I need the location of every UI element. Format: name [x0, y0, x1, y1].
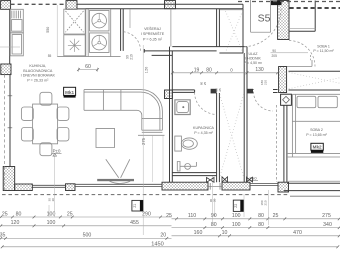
svg-text:80: 80: [211, 222, 217, 228]
svg-text:100: 100: [47, 211, 56, 217]
svg-text:20: 20: [212, 199, 216, 203]
svg-text:20: 20: [51, 198, 55, 202]
svg-text:I DNEVNI BORAVAK: I DNEVNI BORAVAK: [21, 74, 56, 78]
svg-text:P = 6,35 m²: P = 6,35 m²: [143, 37, 163, 41]
svg-text:210: 210: [264, 80, 268, 85]
svg-text:90: 90: [272, 49, 276, 53]
svg-text:19: 19: [194, 68, 200, 74]
svg-text:Mk1: Mk1: [65, 90, 74, 95]
svg-text:20: 20: [160, 233, 166, 239]
svg-text:35: 35: [0, 233, 5, 239]
svg-text:VEŠERAJ: VEŠERAJ: [144, 26, 161, 31]
svg-text:80: 80: [16, 211, 22, 217]
svg-text:10: 10: [222, 230, 228, 236]
svg-text:100: 100: [232, 213, 241, 219]
svg-text:55: 55: [48, 54, 52, 58]
svg-text:1450: 1450: [151, 241, 163, 247]
svg-text:455: 455: [130, 220, 139, 226]
svg-text:120: 120: [11, 220, 20, 226]
svg-text:Z1: Z1: [133, 204, 137, 208]
svg-text:KUPAONICA: KUPAONICA: [193, 126, 215, 130]
svg-text:P = 4,35 m²: P = 4,35 m²: [194, 131, 213, 135]
svg-text:P = 26,33 m²: P = 26,33 m²: [27, 78, 49, 82]
svg-text:25: 25: [67, 211, 73, 217]
svg-text:60: 60: [85, 64, 91, 70]
svg-text:210: 210: [129, 54, 133, 60]
svg-text:P±0: P±0: [53, 149, 61, 154]
svg-text:25: 25: [166, 213, 172, 219]
svg-text:470: 470: [293, 230, 302, 236]
svg-text:BLAGOVAONICA: BLAGOVAONICA: [23, 69, 53, 73]
svg-text:P = 4,50 m²: P = 4,50 m²: [244, 61, 263, 65]
svg-text:275: 275: [141, 137, 146, 145]
svg-text:P = 11,50 m²: P = 11,50 m²: [313, 49, 334, 53]
svg-text:550: 550: [46, 27, 50, 33]
svg-text:I SPREMIŠTE: I SPREMIŠTE: [141, 31, 165, 36]
svg-text:P = 13,65 m²: P = 13,65 m²: [306, 133, 327, 137]
svg-text:SOBA 2: SOBA 2: [310, 128, 323, 132]
svg-text:90: 90: [211, 213, 217, 219]
svg-text:S5: S5: [258, 13, 271, 25]
svg-text:80: 80: [206, 68, 212, 74]
svg-text:Mk2: Mk2: [313, 145, 322, 150]
svg-text:210: 210: [264, 200, 268, 205]
svg-text:130: 130: [255, 67, 264, 73]
svg-text:100: 100: [232, 222, 241, 228]
svg-text:1,50: 1,50: [145, 67, 149, 74]
svg-text:100: 100: [47, 220, 56, 226]
svg-text:25: 25: [273, 213, 279, 219]
svg-text:25: 25: [203, 82, 207, 86]
svg-text:205: 205: [272, 54, 278, 58]
svg-text:340: 340: [323, 222, 332, 228]
svg-text:290: 290: [142, 211, 151, 217]
svg-text:275: 275: [322, 213, 331, 219]
svg-text:160: 160: [194, 230, 203, 236]
svg-text:KUHINJA,: KUHINJA,: [29, 64, 46, 68]
svg-text:I HODNIK: I HODNIK: [245, 57, 261, 61]
svg-text:25: 25: [2, 211, 8, 217]
svg-text:25: 25: [218, 88, 222, 92]
svg-text:80: 80: [258, 222, 264, 228]
svg-text:110: 110: [188, 213, 196, 219]
svg-text:500: 500: [83, 233, 92, 239]
svg-text:80: 80: [258, 213, 264, 219]
svg-text:P±0: P±0: [249, 176, 257, 181]
svg-text:ULAZ: ULAZ: [249, 52, 259, 56]
svg-text:SOBA 1: SOBA 1: [317, 45, 330, 49]
svg-text:Z2: Z2: [234, 204, 238, 208]
